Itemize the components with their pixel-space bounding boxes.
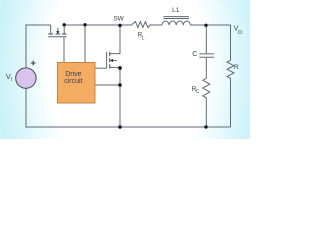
svg-text:circuit: circuit bbox=[64, 78, 82, 85]
svg-text:SW: SW bbox=[113, 16, 124, 23]
svg-text:I: I bbox=[11, 77, 12, 83]
svg-text:O: O bbox=[238, 30, 243, 36]
svg-text:L1: L1 bbox=[172, 7, 180, 14]
svg-text:C: C bbox=[196, 89, 200, 95]
svg-text:C: C bbox=[192, 51, 197, 58]
svg-text:R: R bbox=[234, 64, 239, 71]
svg-text:L: L bbox=[142, 35, 145, 41]
